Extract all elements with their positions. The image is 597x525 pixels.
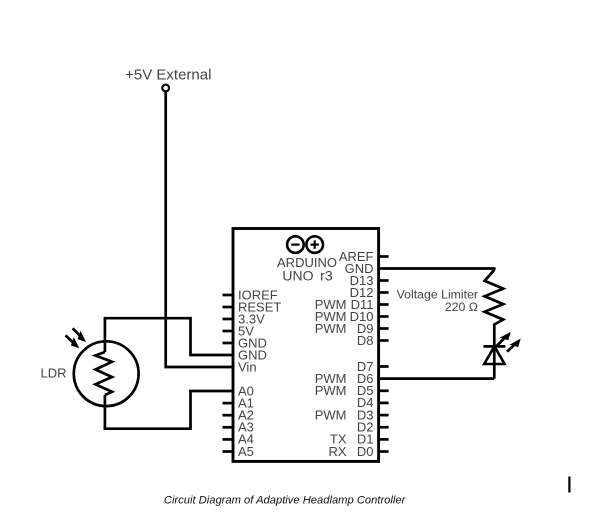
svg-text:+5V External: +5V External [125, 67, 211, 84]
pin tick D4 (right) [379, 402, 389, 405]
svg-text:PWM: PWM [315, 321, 347, 336]
pin tick A5 (left) [223, 450, 234, 453]
LED light arrow 2 [507, 339, 521, 352]
svg-text:UNO r3: UNO r3 [282, 268, 332, 284]
LED D1 cathode bar [483, 345, 505, 348]
+5V terminal circle [162, 85, 169, 92]
LED D1 triangle [484, 346, 504, 364]
pin tick IOREF (left) [223, 294, 234, 297]
svg-text:PWM: PWM [315, 383, 347, 398]
pin tick RESET (left) [223, 306, 234, 309]
LED light arrow 1 [495, 332, 510, 347]
svg-text:220 Ω: 220 Ω [445, 300, 478, 314]
pin tick 5V (left) [223, 330, 234, 333]
Arduino logo left circle (minus) [287, 236, 304, 253]
pin tick A4 (left) [223, 438, 234, 441]
pin tick D3 (right) [379, 414, 389, 417]
svg-text:PWM: PWM [315, 407, 347, 422]
svg-text:Circuit Diagram of Adaptive He: Circuit Diagram of Adaptive Headlamp Con… [164, 495, 407, 507]
LDR resistor zigzag [95, 352, 112, 395]
text cursor bar [568, 477, 570, 493]
LDR light arrow 2 [66, 335, 80, 348]
pin tick D12 (right) [379, 291, 389, 294]
pin tick D8 (right) [379, 339, 389, 342]
pin tick D2 (right) [379, 426, 389, 429]
LDR light arrow 1 [73, 328, 86, 342]
pin tick D1 (right) [379, 438, 389, 441]
LED lead through triangle [493, 346, 496, 378]
wire LED to D6 [379, 377, 495, 380]
wire GND (right) to resistor [379, 269, 495, 271]
Arduino UNO box U1 [233, 229, 379, 462]
pin tick D10 (right) [379, 315, 389, 318]
resistor R1 zigzag Voltage Limiter [485, 270, 504, 347]
svg-text:Vin: Vin [238, 359, 257, 374]
wire LDR bottom to A0 [105, 391, 233, 429]
pin tick D5 (right) [379, 389, 389, 392]
Arduino logo right circle (plus) [306, 236, 323, 253]
pin tick D9 (right) [379, 327, 389, 330]
pin tick AREF (right) [379, 255, 389, 258]
pin tick D0 (right) [379, 450, 389, 453]
pin tick 3.3V (left) [223, 318, 234, 321]
pin tick A2 (left) [223, 414, 234, 417]
pin tick D7 (right) [379, 365, 389, 368]
svg-text:RX: RX [328, 444, 346, 459]
pin tick D11 (right) [379, 303, 389, 306]
svg-text:LDR: LDR [40, 366, 66, 381]
pin tick GND (left) [223, 342, 234, 345]
pin tick A3 (left) [223, 426, 234, 429]
svg-text:A5: A5 [238, 444, 254, 459]
pin tick D13 (right) [379, 279, 389, 282]
pin tick A1 (left) [223, 402, 234, 405]
wire +5V to Vin [166, 91, 233, 367]
svg-text:D0: D0 [357, 444, 374, 459]
svg-text:D8: D8 [357, 333, 374, 348]
wire LDR top to GND [105, 318, 233, 355]
LDR body circle [74, 341, 139, 406]
